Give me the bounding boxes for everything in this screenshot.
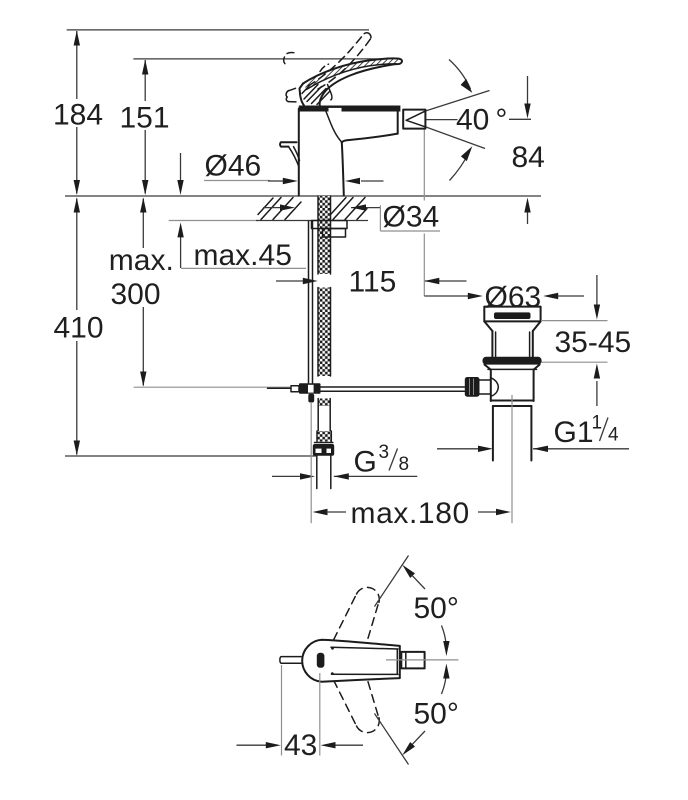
handle neck inner line (328, 85, 332, 100)
top view centerline (386, 659, 459, 661)
svg-text:max.180: max.180 (351, 497, 470, 530)
outlet extension line vertical (423, 129, 425, 296)
svg-text:Ø34: Ø34 (383, 201, 440, 234)
faucet body outline (298, 109, 300, 196)
drain taper below cap (484, 321, 492, 331)
svg-text:35-45: 35-45 (555, 326, 632, 359)
dimension 184 extension line (top) (67, 29, 369, 31)
drain body (490, 370, 492, 401)
dimension 43 line (237, 742, 364, 748)
raised handle dashed outline (308, 34, 371, 89)
top view detail dots (331, 647, 334, 650)
top view lever end inner line (396, 649, 398, 674)
svg-text:115: 115 (349, 265, 397, 298)
top view inner top line (331, 647, 398, 649)
drain neck (491, 331, 493, 357)
dimension 43 extension lines (281, 665, 283, 756)
lowered handle dashed (down 50) (328, 668, 380, 733)
dimension max.300 vertical line (140, 198, 146, 387)
svg-text:410: 410 (53, 312, 103, 345)
counter underside line (256, 220, 368, 222)
50 degree lower ray (375, 714, 409, 765)
dimension 115 line (276, 278, 467, 284)
50 degree upper leader arrow (402, 565, 425, 589)
dimension Ø63 line (424, 293, 584, 299)
mounting nut under counter (312, 221, 348, 229)
pivot left scribble (286, 91, 288, 102)
svg-text:Ø63: Ø63 (485, 281, 542, 314)
label G1 1/4 (554, 413, 620, 450)
svg-text:43: 43 (284, 729, 317, 762)
top view inner bottom line (332, 673, 399, 675)
svg-text:Ø46: Ø46 (205, 150, 262, 183)
top view dark slot (317, 653, 325, 668)
bottom reference line (410 end) (65, 455, 316, 457)
dimension max.45 lower arrow (177, 222, 183, 268)
handle lever bottom edge (320, 64, 395, 105)
counter hatching left block (258, 198, 301, 220)
drain knob stem (480, 379, 491, 381)
max.180 left extension line (310, 403, 312, 523)
50 degree lower leader arrow (402, 731, 425, 755)
threaded shank and braided hose (upper) (318, 196, 331, 376)
svg-text:1: 1 (592, 413, 603, 434)
50 degree lower arc from centerline (442, 664, 450, 695)
dimension G3/8 line (272, 473, 417, 479)
rod junction fitting (299, 383, 321, 394)
handle pivot hatch strokes (302, 85, 330, 105)
svg-text:G1: G1 (554, 416, 594, 449)
dimension Ø34 arrows (263, 204, 380, 210)
supply pipe below fitting (317, 456, 331, 489)
svg-text:84: 84 (512, 141, 545, 174)
top view body outline (302, 640, 400, 682)
faucet spout underside (342, 134, 398, 143)
drain tailpipe (492, 406, 494, 461)
svg-text:184: 184 (53, 99, 103, 132)
drain knob (465, 377, 480, 397)
svg-text:8: 8 (399, 454, 410, 475)
svg-text:40 °: 40 ° (456, 104, 507, 137)
dimension 184 vertical line (74, 31, 80, 196)
faucet body cap band (299, 106, 401, 112)
40 degree arc arrows (449, 60, 472, 181)
dimension max.45 top arrow (above counter) (177, 153, 183, 195)
label Ø34 with box edge (379, 205, 381, 231)
pop-up rod horizontal lever (268, 387, 292, 389)
svg-text:3: 3 (379, 442, 390, 463)
handle lever band lower line (307, 64, 397, 90)
raised handle dashed (up 50) (328, 587, 380, 652)
top view nozzle (401, 652, 424, 669)
hose lower section (315, 399, 333, 443)
svg-text:151: 151 (119, 102, 169, 135)
drain rubber seal (483, 357, 542, 365)
svg-text:300: 300 (111, 278, 161, 311)
aerator nozzle (403, 110, 425, 129)
50 degree upper arc to centerline (442, 626, 450, 657)
50 degree upper ray (375, 556, 409, 607)
raised handle dashed tip (364, 33, 371, 39)
svg-text:4: 4 (608, 425, 619, 446)
counter underside extension line (169, 220, 258, 222)
faucet spout end wall (397, 107, 399, 134)
dimension 84 vertical (524, 76, 530, 224)
handle lever hatched top band (303, 58, 399, 89)
horizontal rod to drain (321, 387, 465, 391)
label max.45 with underline (181, 267, 306, 269)
drain axis extension line (511, 395, 513, 523)
svg-text:G: G (354, 446, 377, 479)
G3/8 fitting nut (313, 444, 334, 456)
dimension 410 vertical line (74, 198, 80, 456)
svg-text:max.: max. (109, 244, 174, 277)
svg-text:max.45: max.45 (194, 239, 292, 272)
pop-up rod vertical (309, 221, 313, 383)
svg-text:50°: 50° (414, 697, 459, 730)
counter deck line (65, 195, 541, 197)
handle lever top edge (303, 58, 402, 83)
max.300 bottom extension line (134, 386, 290, 388)
dimension 40 degree rays (425, 91, 531, 149)
drain bottom coupling (491, 400, 534, 402)
pop-up knob on body (280, 142, 296, 146)
drain ball joint arc (491, 378, 499, 397)
dimension 35-45 extension lines (541, 320, 608, 322)
dimension max.180 line (313, 509, 512, 515)
top view left protrusion (280, 657, 301, 664)
handle pivot front (300, 84, 305, 106)
label G 3/8 (354, 442, 410, 479)
svg-text:50°: 50° (414, 592, 459, 625)
dimension 35-45 arrows (594, 275, 600, 406)
raised handle front nub dashes (284, 57, 287, 65)
drain pop-up waste top cap (484, 307, 540, 322)
faucet body inner curve (326, 112, 342, 143)
counter hatching right block (331, 198, 367, 220)
dimension 151 extension line (133, 58, 400, 60)
dimension 151 vertical line (142, 60, 148, 196)
drain flange taper (485, 365, 491, 370)
dimension G1 1/4 line (437, 446, 629, 452)
